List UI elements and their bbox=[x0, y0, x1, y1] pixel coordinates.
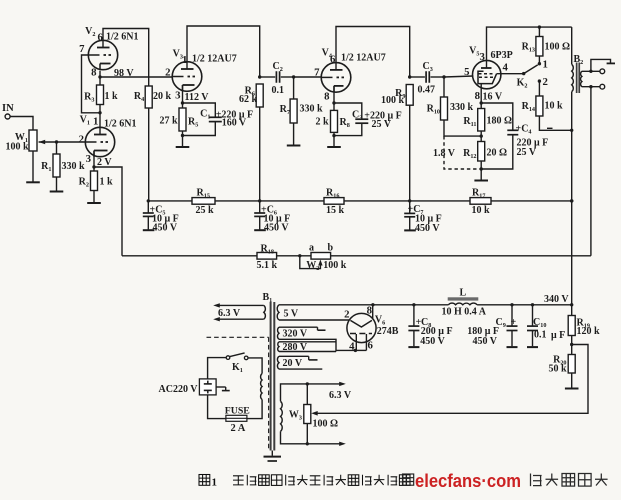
wire R6 to B+ rail bbox=[259, 107, 261, 201]
svg-text:4: 4 bbox=[503, 62, 509, 74]
ground below W1 bbox=[32, 151, 34, 182]
svg-text:a: a bbox=[309, 243, 314, 254]
wire secondary ground branch bbox=[591, 59, 611, 71]
svg-text:6P3P: 6P3P bbox=[491, 50, 513, 61]
svg-text:50 k: 50 k bbox=[548, 364, 567, 375]
svg-text:0.47: 0.47 bbox=[418, 85, 436, 96]
wire W1 wiper to V1 grid bbox=[39, 141, 86, 143]
node V5 grid / R10 bbox=[442, 75, 445, 78]
svg-text:330 k: 330 k bbox=[450, 102, 474, 113]
wire PSU top rail bbox=[279, 304, 448, 306]
capacitor C2 0.1 coupling bbox=[260, 76, 276, 78]
resistor R7 330k bbox=[293, 77, 295, 99]
capacitor C7 0.47 coupling bbox=[410, 76, 425, 78]
wire plug earth tick bbox=[216, 386, 226, 388]
svg-text:8: 8 bbox=[324, 91, 330, 103]
wire shield dashed bbox=[207, 336, 269, 338]
svg-text:20 Ω: 20 Ω bbox=[487, 148, 508, 159]
winding 280V bbox=[278, 342, 279, 352]
winding 320V bbox=[277, 327, 279, 339]
ground below R7 bbox=[293, 123, 295, 146]
wire V3 anode loop to R6 bbox=[187, 26, 260, 77]
svg-text:3: 3 bbox=[175, 90, 181, 102]
resistor R17 10k bbox=[470, 198, 491, 205]
winding 6.3V heater lower bbox=[281, 401, 283, 431]
capacitor C7 10uF 450V rail bbox=[408, 199, 411, 202]
svg-text:6: 6 bbox=[330, 54, 336, 66]
wire R14 to B+ 340V column bbox=[539, 116, 571, 130]
svg-text:1.8 V: 1.8 V bbox=[433, 148, 456, 159]
svg-text:6.3 V: 6.3 V bbox=[329, 390, 352, 401]
svg-text:100 k: 100 k bbox=[5, 142, 29, 153]
node K2 contact 1 bbox=[538, 62, 541, 65]
wire V2 anode to R4 top loop bbox=[103, 29, 149, 87]
svg-text:10 H 0.4 A: 10 H 0.4 A bbox=[442, 306, 487, 317]
svg-text:160 V: 160 V bbox=[222, 118, 247, 129]
svg-text:1: 1 bbox=[212, 477, 218, 489]
svg-text:IN: IN bbox=[2, 103, 14, 114]
resistor R6 62k bbox=[258, 75, 261, 78]
svg-text:450 V: 450 V bbox=[472, 336, 497, 347]
wire heater top line bbox=[281, 384, 344, 401]
svg-text:450 V: 450 V bbox=[153, 222, 178, 233]
resistor R18 5.1k bbox=[257, 253, 277, 260]
triode V2 1/2 6N1 bbox=[88, 40, 117, 69]
switch K1 bbox=[226, 356, 230, 360]
wire R4 to B+ rail bbox=[148, 108, 150, 201]
wire K1 to plug bbox=[208, 358, 227, 379]
svg-text:330 k: 330 k bbox=[62, 161, 86, 172]
capacitor C6 10uF 450V bbox=[258, 199, 261, 202]
svg-text:μ F: μ F bbox=[551, 330, 565, 341]
speaker terminal bottom bbox=[600, 84, 605, 89]
wire V4 anode loop to R9 bbox=[336, 27, 410, 78]
resistor R13 100ohm bbox=[538, 56, 540, 64]
svg-text:b: b bbox=[328, 243, 334, 254]
svg-text:100 Ω: 100 Ω bbox=[545, 42, 571, 53]
svg-text:320 V: 320 V bbox=[283, 329, 308, 340]
svg-text:5.1 k: 5.1 k bbox=[257, 260, 278, 271]
resistor R3 1k bbox=[99, 71, 101, 85]
resistor R5 27k bbox=[182, 103, 184, 108]
wire B2 primary bottom to 340V bbox=[571, 92, 573, 305]
svg-text:10 k: 10 k bbox=[472, 205, 491, 216]
svg-text:0.1: 0.1 bbox=[534, 329, 547, 340]
svg-text:2: 2 bbox=[79, 134, 84, 146]
resistor R16 15k bbox=[324, 198, 344, 205]
wire V4 cathode bbox=[333, 86, 335, 103]
wire R19/R20 junction to W3 wiper bbox=[313, 345, 588, 414]
svg-text:25 V: 25 V bbox=[517, 147, 537, 158]
svg-text:62 k: 62 k bbox=[239, 94, 258, 105]
resistor R4 20k bbox=[145, 86, 152, 108]
ground below R20 bbox=[571, 373, 573, 389]
ground below R2 bbox=[93, 191, 95, 204]
wire V5 cathode 16V node bbox=[480, 84, 482, 103]
resistor R12 20ohm bbox=[480, 136, 482, 141]
svg-text:6.3 V: 6.3 V bbox=[218, 308, 241, 319]
node K2 contact 2 bbox=[538, 79, 541, 82]
potentiometer W1 100k bbox=[29, 130, 37, 151]
wire top rail to B2 primary bbox=[571, 27, 573, 64]
svg-text:+: + bbox=[511, 317, 517, 328]
svg-text:25 k: 25 k bbox=[196, 205, 215, 216]
svg-text:1: 1 bbox=[543, 59, 548, 71]
wire R10 bottom to R11/R12 junction bbox=[444, 120, 481, 136]
svg-text:7: 7 bbox=[79, 43, 85, 55]
B2 core bbox=[576, 63, 578, 94]
svg-text:16 V: 16 V bbox=[483, 92, 503, 103]
node V4 grid / R7 bbox=[292, 75, 295, 78]
svg-text:L: L bbox=[460, 287, 467, 298]
svg-text:330 k: 330 k bbox=[300, 104, 324, 115]
resistor R10 330k grid leak bbox=[443, 77, 445, 97]
svg-text:5 V: 5 V bbox=[284, 309, 299, 320]
svg-text:elecfans·com: elecfans·com bbox=[415, 470, 521, 491]
wire R18 to W2 bbox=[277, 255, 311, 257]
ground below R12 bbox=[480, 169, 482, 181]
svg-text:120 k: 120 k bbox=[577, 326, 601, 337]
resistor R11 180ohm bbox=[480, 103, 482, 109]
svg-text:8: 8 bbox=[367, 305, 373, 317]
svg-text:2 A: 2 A bbox=[231, 423, 246, 434]
capacitor C1 220uF 160V bbox=[183, 103, 216, 117]
winding 5V bbox=[277, 305, 279, 320]
winding 20V bbox=[277, 356, 279, 369]
svg-text:1/2 6N1: 1/2 6N1 bbox=[106, 32, 139, 43]
svg-text:10 k: 10 k bbox=[545, 101, 564, 112]
resistor R15 25k bbox=[192, 198, 215, 205]
inductor L 10H 0.4A bbox=[448, 297, 479, 300]
beam tetrode V5 6P3P bbox=[473, 60, 501, 88]
wire V5 anode to top rail bbox=[487, 27, 572, 60]
svg-text:8: 8 bbox=[475, 90, 481, 102]
potentiometer W2 100k bbox=[311, 253, 331, 260]
svg-text:2 k: 2 k bbox=[315, 117, 329, 128]
svg-text:7: 7 bbox=[314, 67, 320, 79]
svg-text:20 V: 20 V bbox=[283, 358, 303, 369]
ground below V4 cathode network bbox=[333, 136, 335, 147]
rectifier V6 274B bbox=[347, 313, 376, 342]
wire V5 screen pin4 to K2 bbox=[497, 73, 524, 75]
svg-text:274B: 274B bbox=[377, 326, 399, 337]
svg-text:112 V: 112 V bbox=[185, 92, 210, 103]
B2 primary winding bbox=[572, 64, 574, 91]
svg-text:1/2 12AU7: 1/2 12AU7 bbox=[341, 53, 386, 64]
svg-text:180 Ω: 180 Ω bbox=[487, 116, 513, 127]
svg-text:25 V: 25 V bbox=[372, 119, 392, 130]
wire R9 to B+ rail bbox=[409, 105, 411, 201]
capacitor C10 0.1uF bbox=[531, 303, 534, 306]
svg-text:0.1: 0.1 bbox=[272, 85, 285, 96]
wire IN to W1 bbox=[10, 117, 33, 131]
wire feedback from secondary to W2 line bbox=[590, 87, 592, 256]
AC220V plug bbox=[199, 379, 216, 395]
wire 98V node to V3 grid bbox=[100, 76, 172, 78]
svg-text:3: 3 bbox=[86, 153, 92, 165]
resistor R20 50k bbox=[571, 345, 573, 355]
wire primary to fuse bbox=[247, 400, 262, 419]
wire W2 to feedback column bbox=[331, 255, 591, 257]
svg-text:15 k: 15 k bbox=[326, 205, 345, 216]
wire feedback line bbox=[122, 255, 257, 257]
wire feedback takeoff from V1 cathode bbox=[94, 167, 122, 256]
capacitor C4 220uF 25V bbox=[481, 103, 513, 130]
resistor R2 1k bbox=[93, 167, 95, 171]
speaker terminal top bbox=[600, 69, 605, 74]
resistor R9 100k bbox=[408, 75, 411, 78]
ground below R1 bbox=[56, 177, 58, 192]
svg-text:6: 6 bbox=[368, 340, 374, 352]
wire B2 secondary bottom to speaker bbox=[582, 86, 600, 88]
caption text bbox=[199, 475, 210, 486]
svg-text:8: 8 bbox=[91, 67, 97, 79]
svg-text:3: 3 bbox=[480, 51, 486, 63]
svg-text:340 V: 340 V bbox=[544, 294, 569, 305]
capacitor C8 200uF 450V bbox=[412, 303, 415, 306]
wire fuse to plug bbox=[208, 395, 226, 419]
svg-text:1 k: 1 k bbox=[100, 177, 114, 188]
wire dashed 1.8V option bbox=[444, 136, 481, 169]
resistor R8 2k bbox=[333, 103, 335, 110]
svg-text:5: 5 bbox=[464, 66, 469, 78]
ground below V3 cathode network bbox=[182, 136, 184, 148]
svg-text:450 V: 450 V bbox=[264, 222, 289, 233]
svg-text:27 k: 27 k bbox=[159, 116, 178, 127]
ground below B1 core bbox=[271, 451, 273, 456]
wire heater bottom line bbox=[281, 431, 344, 443]
wire V2 grid to V1 anode junction bbox=[82, 55, 101, 113]
svg-text:20 k: 20 k bbox=[153, 91, 172, 102]
resistor R1 330k bbox=[56, 142, 58, 154]
capacitor C9 180uF 450V bbox=[510, 303, 513, 306]
resistor R14 10k bbox=[538, 81, 540, 96]
B2 secondary winding bbox=[581, 71, 582, 86]
svg-text:450 V: 450 V bbox=[420, 336, 445, 347]
triode V1 1/2 6N1 bbox=[85, 127, 114, 156]
svg-text:450 V: 450 V bbox=[415, 223, 440, 234]
svg-text:280 V: 280 V bbox=[283, 342, 308, 353]
node V1 anode / R3 / V2 grid junction bbox=[98, 111, 101, 114]
transformer B1 primary winding bbox=[261, 374, 263, 400]
svg-text:2: 2 bbox=[543, 76, 548, 88]
node R11/R12 junction bbox=[480, 131, 482, 136]
svg-text:1/2 12AU7: 1/2 12AU7 bbox=[192, 54, 237, 65]
svg-text:100 k: 100 k bbox=[381, 95, 405, 106]
svg-text:100 Ω: 100 Ω bbox=[313, 419, 339, 430]
svg-text:2: 2 bbox=[344, 309, 349, 321]
wire V3 cathode bbox=[182, 85, 184, 103]
resistor R19 120k bbox=[571, 305, 573, 316]
svg-text:1 k: 1 k bbox=[105, 91, 119, 102]
wire V6 pin8 to rail bbox=[372, 305, 374, 319]
triode V4 1/2 12AU7 bbox=[321, 63, 351, 93]
svg-text:1/2 6N1: 1/2 6N1 bbox=[104, 119, 137, 130]
switch K2 bbox=[522, 72, 525, 75]
svg-text:2: 2 bbox=[165, 67, 170, 79]
svg-text:100 k: 100 k bbox=[323, 260, 347, 271]
potentiometer W3 100ohm bbox=[306, 384, 308, 405]
wire V1 cathode 2V node bbox=[93, 151, 95, 168]
wire V6 plates bracket bbox=[355, 334, 357, 350]
wire B+ rail bbox=[148, 200, 192, 202]
capacitor C5 10uF 450V bbox=[147, 199, 150, 202]
wire B2 secondary top to speaker bbox=[582, 70, 600, 72]
svg-text:AC220 V: AC220 V bbox=[159, 384, 199, 395]
svg-text:FUSE: FUSE bbox=[225, 405, 251, 416]
svg-text:1: 1 bbox=[93, 116, 98, 128]
triode V3 1/2 12AU7 bbox=[172, 62, 202, 92]
winding 6.3V upper left bbox=[216, 304, 263, 306]
wire K1 to primary bbox=[248, 358, 262, 374]
fuse FUSE 2A bbox=[226, 415, 247, 421]
capacitor C3 220uF 25V bbox=[334, 103, 362, 119]
